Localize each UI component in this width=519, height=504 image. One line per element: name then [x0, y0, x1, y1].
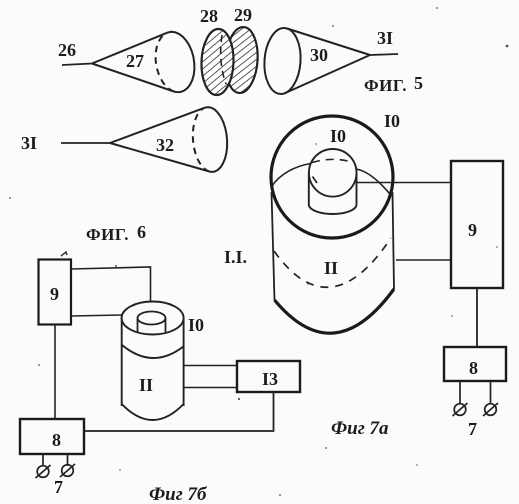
svg-text:ФИГ.: ФИГ. [364, 76, 407, 95]
lens 29 [223, 26, 260, 94]
svg-text:Фиг 7а: Фиг 7а [331, 418, 389, 439]
svg-text:I.I.: I.I. [224, 247, 247, 267]
fig7a cylinder body [272, 192, 395, 333]
svg-text:7: 7 [54, 477, 63, 497]
box 9 (fig7a) [451, 161, 503, 288]
box 9 (fig7b) [39, 260, 72, 325]
svg-text:6: 6 [137, 222, 146, 242]
svg-text:9: 9 [50, 284, 59, 304]
terminal 7 left (fig7b) [36, 465, 51, 478]
fig7a outer-tube back rim arc right [356, 169, 392, 196]
svg-text:II: II [139, 375, 153, 395]
wire inner-cyl to box9 [356, 182, 451, 184]
wire box9 to cylinder side (fig7b) [71, 315, 122, 316]
wire cylinder to box9 [396, 259, 451, 261]
svg-text:27: 27 [126, 51, 144, 71]
terminal 7 right (fig7b) [60, 464, 75, 477]
wire box9 to box8 (fig7b) [54, 325, 56, 420]
fig7b inner cylinder 10 [138, 312, 166, 333]
fig7b cylinder top rim [122, 302, 184, 335]
box 13 [237, 361, 300, 392]
cone 27 [92, 32, 194, 92]
svg-text:I3: I3 [262, 369, 278, 389]
terminal stubs (fig7b) [42, 454, 44, 466]
svg-text:I0: I0 [330, 126, 346, 146]
svg-text:Фиг 7б: Фиг 7б [149, 484, 208, 504]
svg-text:32: 32 [156, 135, 174, 155]
svg-text:30: 30 [310, 45, 328, 65]
svg-text:8: 8 [469, 358, 478, 378]
wire cylinder to box13 upper [183, 365, 237, 367]
svg-text:II: II [324, 258, 338, 278]
fig7a outer cylinder rim circle [271, 116, 393, 238]
fig7b cylinder body [122, 318, 184, 420]
svg-text:9: 9 [468, 220, 477, 240]
fig7a outer-tube back rim arc left [272, 164, 311, 187]
wire 26 lead [62, 64, 92, 66]
svg-text:3I: 3I [21, 133, 37, 153]
wire 31 lead (fig5) [370, 54, 398, 55]
wire cylinder to box13 lower [184, 387, 237, 389]
svg-text:29: 29 [234, 5, 252, 25]
box 8 (fig7b) [20, 419, 84, 454]
wire box9 to inner cylinder (fig7b) [71, 267, 151, 311]
wire 31 lead (fig6) [61, 142, 110, 144]
svg-text:26: 26 [58, 40, 76, 60]
svg-text:28: 28 [200, 6, 218, 26]
svg-text:I0: I0 [384, 111, 400, 131]
terminal 7 right (fig7a) [483, 403, 498, 416]
cone 30 [262, 27, 370, 95]
svg-text:5: 5 [414, 73, 423, 93]
fig7a inner cylinder 10 [309, 149, 357, 214]
cone 32 [110, 107, 227, 172]
svg-text:7: 7 [468, 419, 477, 439]
svg-text:I0: I0 [188, 315, 204, 335]
lens 28 [200, 28, 234, 95]
wire box13 to box8 (fig7b) [84, 392, 274, 431]
terminal stubs (fig7a) [459, 381, 461, 403]
wire box9 to box8 (fig7a) [476, 288, 478, 347]
box 8 (fig7a) [444, 347, 506, 381]
svg-text:ФИГ.: ФИГ. [86, 225, 129, 244]
stray mark above box9 (fig7b) [61, 252, 67, 256]
fig7b band arc [122, 345, 184, 358]
svg-text:8: 8 [52, 430, 61, 450]
terminal 7 left (fig7a) [453, 403, 468, 416]
svg-text:3I: 3I [377, 28, 393, 48]
